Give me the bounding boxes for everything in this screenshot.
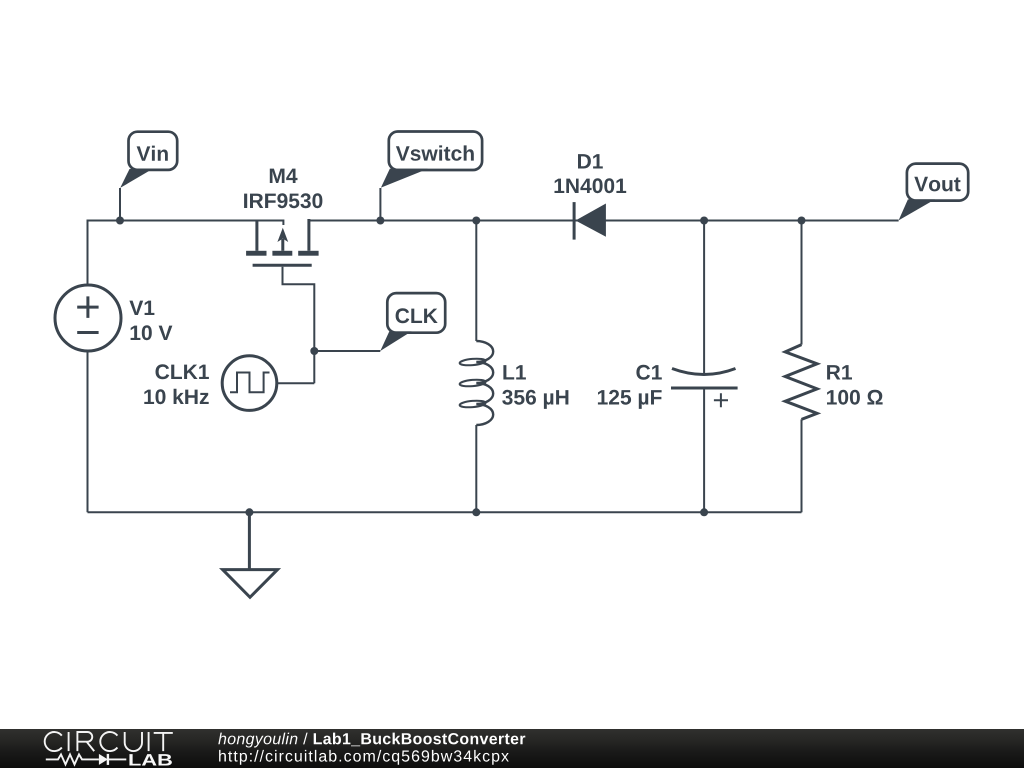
label D1 [578, 154, 603, 168]
logo letter I [68, 732, 70, 751]
value 1N4001 [555, 178, 627, 193]
value 125 uF [598, 390, 662, 409]
flag text Vswitch [396, 145, 474, 160]
wire bottom ground rail [88, 511, 802, 513]
node C1 top junction dot [700, 217, 708, 225]
logo letter I2 [148, 732, 150, 751]
node L1 top junction dot [472, 217, 480, 225]
node ground junction dot [245, 508, 253, 516]
logo resistor zigzag [46, 754, 127, 764]
flag Vout [899, 164, 969, 221]
node Vswitch junction dot [376, 217, 384, 225]
inductor L1 [459, 221, 493, 513]
label C1 [636, 365, 661, 380]
resistor R1 [785, 221, 817, 513]
wire CLK flag wire [314, 350, 380, 352]
logo letter U [125, 732, 142, 751]
label V1 [129, 301, 154, 315]
logo diode [99, 754, 108, 765]
value IRF9530 [244, 193, 322, 208]
flag CLK [380, 293, 445, 351]
CircuitLab logo [45, 732, 173, 765]
value 100 Ohm [827, 390, 883, 405]
node L1 bottom junction dot [472, 508, 480, 516]
voltage source V1 [55, 285, 121, 351]
value 356 uH [502, 390, 568, 409]
node Vin junction dot [116, 217, 124, 225]
logo text LAB [129, 754, 171, 765]
flag text Vin [137, 146, 168, 161]
flag Vswitch [380, 132, 482, 221]
ground symbol [223, 512, 278, 597]
label M4 [270, 169, 298, 183]
flag text Vout [914, 177, 960, 192]
footer bar [0, 729, 1024, 768]
clock source CLK1 [222, 356, 277, 411]
node CLK junction dot [310, 347, 318, 355]
footer credit line [218, 733, 525, 748]
logo letter T [154, 733, 173, 751]
logo letter C [45, 732, 62, 751]
label CLK1 [156, 364, 209, 379]
value 10 V [131, 325, 173, 340]
capacitor C1 [671, 221, 738, 513]
flag text CLK [396, 308, 438, 323]
label L1 [503, 365, 526, 379]
diode D1 [574, 202, 606, 240]
footer url line [219, 750, 509, 765]
label R1 [827, 365, 852, 379]
wire top-left rail from V1 to MOSFET source stub [88, 221, 284, 287]
wire top-right rail from MOSFET drain to Vout attach [309, 220, 899, 222]
node R1 top junction dot [798, 217, 806, 225]
flag Vin [120, 132, 177, 221]
wire clock output to gate net [277, 382, 315, 384]
wire V1 bottom lead [87, 351, 89, 512]
value 10 kHz [144, 389, 208, 404]
node C1 bottom junction dot [700, 508, 708, 516]
logo letter R [77, 732, 94, 751]
logo letter C2 [100, 732, 117, 751]
transistor M4 PMOS IRF9530 [246, 219, 319, 383]
